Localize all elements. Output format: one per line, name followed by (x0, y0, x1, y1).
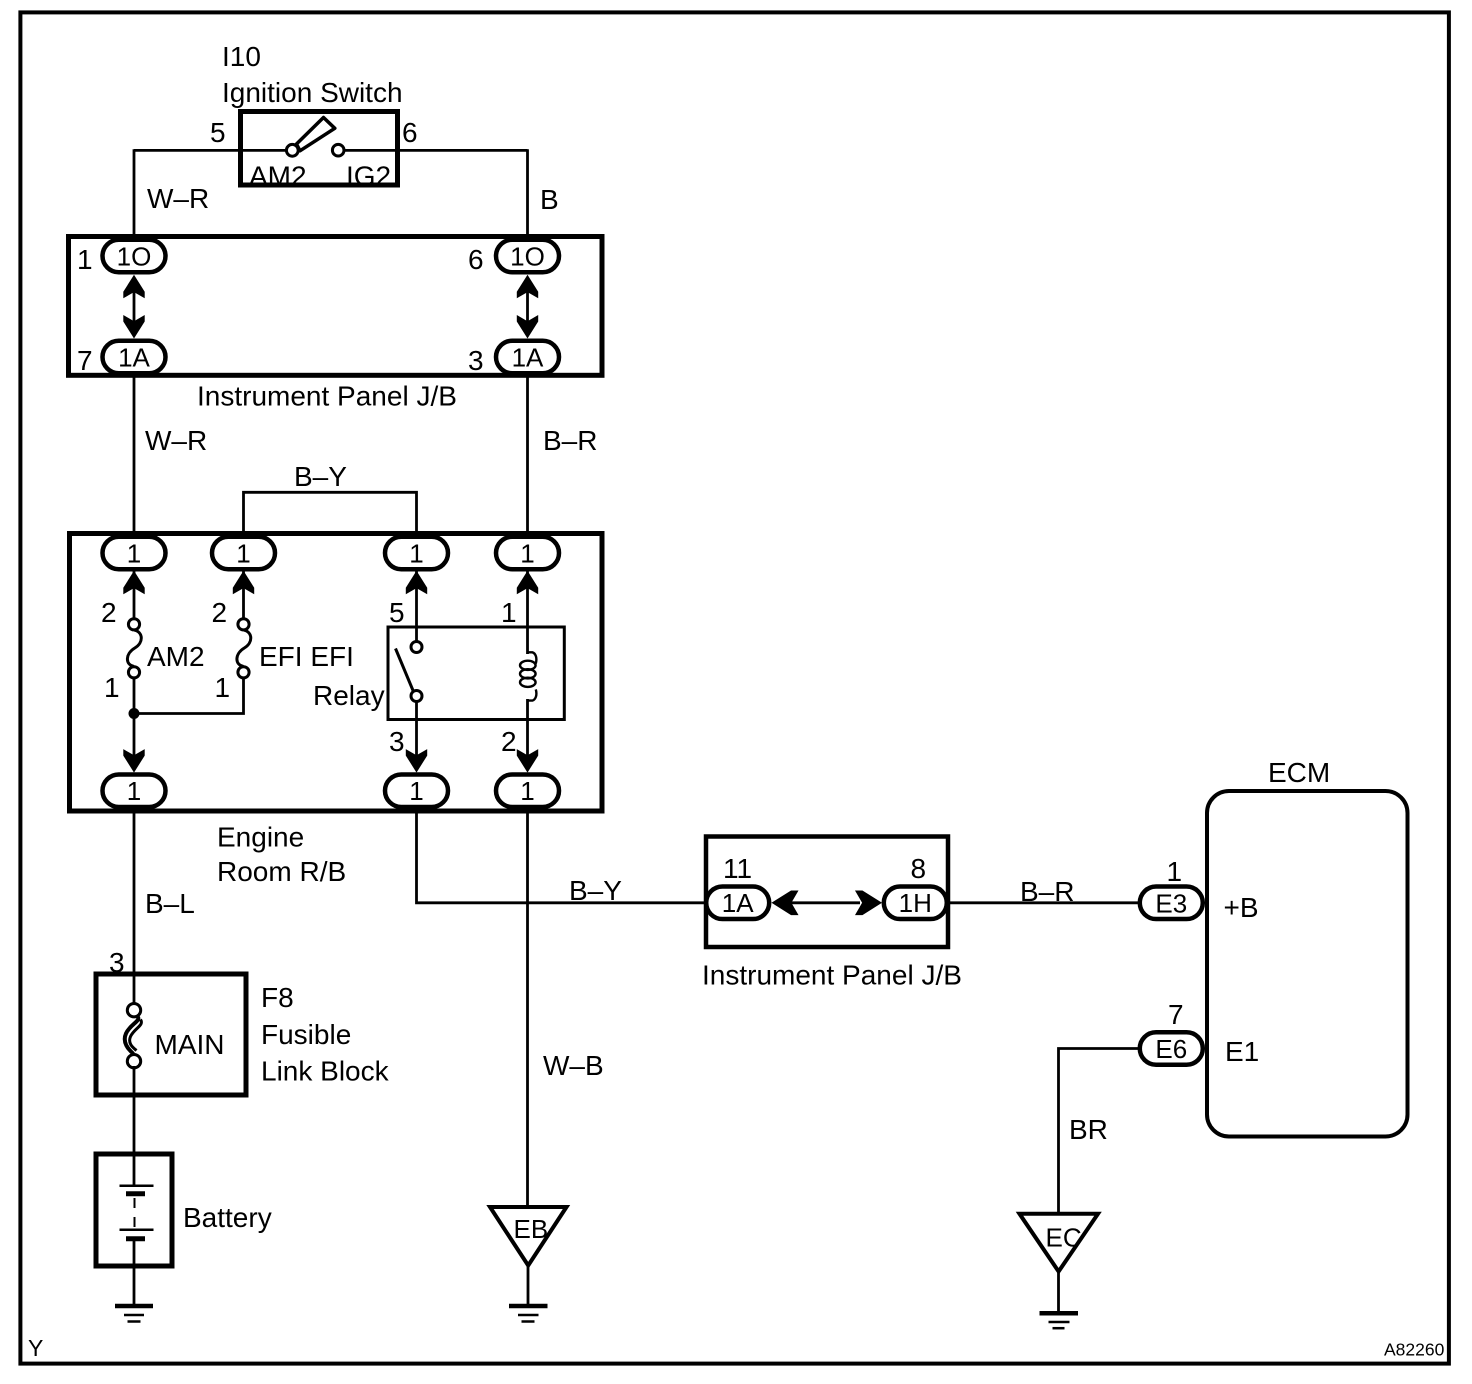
wire pin5 horizontal (134, 149, 292, 152)
wire col4 upper (526, 570, 529, 654)
connector oval 1 bottom col1 (103, 774, 166, 807)
svg-text:Battery: Battery (183, 1202, 272, 1233)
wire col1 upper (133, 570, 136, 620)
fusible link top terminal (127, 1004, 140, 1017)
connector oval 1O right (496, 240, 559, 273)
svg-text:W–B: W–B (543, 1050, 604, 1081)
wire B-R to ECM (949, 901, 1140, 904)
wire B-Y jumper bracket (244, 492, 417, 537)
wire BR from E6 (1059, 1049, 1141, 1214)
wire col2 upper (242, 570, 245, 620)
svg-text:W–R: W–R (147, 183, 209, 214)
svg-text:IG2: IG2 (346, 161, 391, 192)
svg-text:E6: E6 (1155, 1034, 1187, 1064)
ground EB bar2 (518, 1314, 539, 1317)
svg-text:Fusible: Fusible (261, 1019, 351, 1050)
wire into fusible link (133, 974, 136, 1006)
svg-text:Ignition Switch: Ignition Switch (222, 77, 403, 108)
svg-text:1: 1 (127, 776, 141, 806)
svg-text:AM2: AM2 (249, 161, 307, 192)
relay coil exit (528, 689, 537, 700)
wire fusible link to battery (133, 1066, 136, 1186)
wire battery to ground (133, 1241, 136, 1304)
relay contact bottom (411, 691, 422, 702)
contact AM2 (286, 144, 298, 156)
relay coil loop 1 (520, 661, 536, 670)
connector oval 1 top col1 (103, 537, 166, 570)
connector oval 1A (706, 887, 769, 920)
svg-text:B–L: B–L (145, 888, 195, 919)
fusible link element inner (130, 1020, 142, 1051)
svg-text:6: 6 (402, 117, 418, 148)
svg-text:2: 2 (212, 597, 228, 628)
svg-text:1A: 1A (722, 888, 754, 918)
svg-text:1: 1 (501, 597, 517, 628)
svg-text:1A: 1A (512, 343, 544, 373)
svg-text:F8: F8 (261, 982, 294, 1013)
svg-text:1: 1 (127, 539, 141, 569)
svg-text:E1: E1 (1225, 1036, 1259, 1067)
arrowhead down left (123, 315, 144, 339)
wire pin6 vertical B drop (526, 149, 529, 240)
svg-text:1: 1 (1167, 856, 1183, 887)
double arrow shaft right (526, 290, 529, 322)
ground battery bar1 (115, 1304, 153, 1309)
svg-text:5: 5 (210, 117, 226, 148)
ground battery bar2 (124, 1314, 144, 1317)
arrowhead down col4 (517, 749, 538, 773)
arrowhead down right (517, 315, 538, 339)
svg-text:2: 2 (101, 597, 117, 628)
wire col3 lower (415, 701, 418, 757)
arrowhead up col1 (123, 571, 144, 595)
svg-text:E3: E3 (1155, 888, 1187, 918)
svg-text:Room R/B: Room R/B (217, 856, 346, 887)
fuse AM2 top terminal (128, 619, 139, 630)
battery plate short bottom (126, 1236, 145, 1241)
fuse AM2 bottom terminal (128, 667, 139, 678)
relay coil loop 3 (520, 678, 536, 687)
svg-text:1: 1 (409, 539, 423, 569)
svg-text:Link Block: Link Block (261, 1056, 390, 1087)
EFI relay box (388, 627, 564, 720)
switch lever (297, 118, 335, 151)
svg-text:1O: 1O (510, 242, 545, 272)
ECM box (1207, 791, 1408, 1137)
connector oval 1 bottom col4 (496, 774, 559, 807)
arrowhead up col3 (406, 571, 427, 595)
connector oval 1O left (103, 240, 166, 273)
fusible link bottom terminal (127, 1055, 140, 1068)
fuse AM2 element (127, 630, 141, 667)
connector oval 1 top col3 (385, 537, 448, 570)
battery plate long top (120, 1184, 154, 1187)
svg-text:1: 1 (104, 672, 120, 703)
svg-text:A82260: A82260 (1384, 1340, 1445, 1360)
wire EB to ground (527, 1266, 530, 1304)
fuse EFI bottom terminal (238, 667, 249, 678)
wire col3 upper (415, 570, 418, 643)
svg-text:Engine: Engine (217, 822, 304, 853)
arrow shaft between 1A and 1H (786, 901, 860, 904)
svg-text:EC: EC (1046, 1223, 1082, 1253)
svg-text:1: 1 (215, 672, 231, 703)
battery box (96, 1154, 172, 1266)
arrowhead up left (123, 275, 144, 299)
arrowhead up col4 (517, 571, 538, 595)
connector oval E6 (1140, 1032, 1203, 1065)
battery plate long bottom (120, 1229, 154, 1232)
svg-text:1: 1 (409, 776, 423, 806)
arrowhead up col2 (233, 571, 254, 595)
arrowhead down col3 (406, 749, 427, 773)
svg-text:2: 2 (501, 726, 517, 757)
svg-text:Relay: Relay (313, 680, 385, 711)
ground EC triangle (1020, 1214, 1099, 1272)
svg-text:3: 3 (468, 345, 484, 376)
Instrument Panel J/B box 2 (706, 837, 948, 948)
wire EC to ground (1057, 1272, 1060, 1311)
svg-text:1H: 1H (899, 888, 932, 918)
svg-text:EB: EB (514, 1214, 549, 1244)
wire B-L (133, 807, 136, 975)
ignition switch I10 box (241, 112, 398, 186)
svg-text:Instrument Panel J/B: Instrument Panel J/B (702, 960, 962, 991)
wire col1 lower (133, 678, 136, 757)
svg-text:B–Y: B–Y (569, 875, 622, 906)
arrowhead up right (517, 275, 538, 299)
svg-text:3: 3 (389, 726, 405, 757)
svg-text:1: 1 (520, 539, 534, 569)
ground EB bar1 (509, 1304, 548, 1309)
fusible link element (125, 1016, 139, 1055)
svg-text:1: 1 (236, 539, 250, 569)
wire jumper fuse outputs (134, 678, 244, 714)
fuse EFI top terminal (238, 619, 249, 630)
fuse EFI element (237, 630, 251, 667)
svg-text:5: 5 (389, 597, 405, 628)
F8 fusible link block box (96, 974, 246, 1095)
battery dashed center link (134, 1198, 136, 1228)
svg-text:Instrument Panel J/B: Instrument Panel J/B (197, 381, 457, 412)
svg-text:1: 1 (520, 776, 534, 806)
ground EB bar3 (522, 1320, 535, 1323)
connector oval 1 bottom col3 (385, 774, 448, 807)
connector oval 1A right (496, 341, 559, 374)
ground EC bar3 (1053, 1327, 1065, 1330)
wire B-Y run to J/B (417, 807, 707, 903)
Engine Room R/B box (70, 534, 603, 812)
wire pin5 vertical W-R drop (133, 149, 136, 240)
junction node dot (129, 708, 140, 719)
wire W-R segment 2 (133, 374, 136, 538)
svg-text:BR: BR (1069, 1114, 1108, 1145)
svg-text:MAIN: MAIN (155, 1029, 225, 1060)
connector oval 1 top col4 (496, 537, 559, 570)
connector oval 1A left (103, 341, 166, 374)
contact IG2 (332, 144, 344, 156)
Instrument Panel J/B box 1 (69, 237, 603, 376)
svg-text:8: 8 (911, 853, 927, 884)
svg-text:AM2: AM2 (147, 641, 205, 672)
svg-text:1A: 1A (118, 343, 150, 373)
ground battery bar3 (128, 1320, 141, 1323)
ground EC bar2 (1049, 1321, 1070, 1324)
svg-text:11: 11 (723, 853, 752, 884)
battery plate short top (126, 1191, 145, 1196)
connector oval E3 (1140, 887, 1203, 920)
svg-text:B–Y: B–Y (294, 461, 347, 492)
relay switch lever (396, 649, 414, 691)
svg-text:6: 6 (468, 244, 484, 275)
wire col4 lower (526, 699, 529, 757)
svg-text:B–R: B–R (543, 425, 597, 456)
wire W-B (526, 807, 529, 1206)
svg-text:B–R: B–R (1020, 876, 1074, 907)
ground EB triangle (490, 1207, 567, 1266)
svg-text:+B: +B (1224, 892, 1259, 923)
relay coil loop 2 (520, 669, 536, 678)
wire pin6 horizontal (338, 149, 528, 152)
connector oval 1 top col2 (212, 537, 275, 570)
relay contact top (411, 642, 422, 653)
double arrow shaft left (133, 290, 136, 322)
svg-text:EFI EFI: EFI EFI (259, 641, 354, 672)
svg-text:ECM: ECM (1268, 757, 1330, 788)
svg-text:Y: Y (28, 1335, 43, 1361)
svg-text:B: B (540, 184, 559, 215)
svg-text:W–R: W–R (145, 425, 207, 456)
svg-text:1O: 1O (117, 242, 152, 272)
svg-text:7: 7 (1168, 999, 1184, 1030)
ground EC bar1 (1040, 1311, 1079, 1316)
svg-text:7: 7 (77, 345, 93, 376)
relay coil entry (528, 652, 537, 663)
arrowhead right into 1H (855, 890, 882, 915)
wire B-R segment (526, 374, 529, 538)
svg-text:1: 1 (77, 244, 93, 275)
svg-text:I10: I10 (222, 41, 261, 72)
arrowhead down col1 (123, 749, 144, 773)
arrowhead left into 1A (772, 890, 799, 915)
connector oval 1H (884, 887, 947, 920)
